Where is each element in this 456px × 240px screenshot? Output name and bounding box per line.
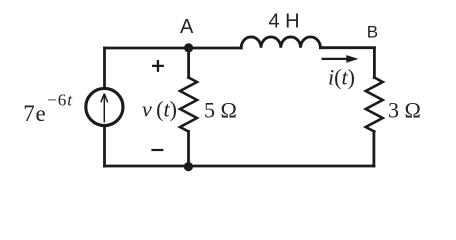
wire left vertical lower xyxy=(103,126,106,167)
svg-text:B: B xyxy=(367,23,378,42)
current source I1 arrow xyxy=(101,94,108,123)
node A junction dot xyxy=(184,43,193,52)
svg-text:5 Ω: 5 Ω xyxy=(204,98,237,123)
svg-text:i(t): i(t) xyxy=(328,64,355,89)
wire node A to resistor R1 xyxy=(187,48,190,78)
svg-text:7e: 7e xyxy=(23,101,46,126)
wire left vertical upper xyxy=(103,48,106,89)
current source I1 circle xyxy=(86,88,123,125)
label - polarity xyxy=(151,149,163,151)
wire right vertical lower xyxy=(372,132,375,167)
label + polarity xyxy=(152,60,164,72)
svg-text:A: A xyxy=(180,16,194,38)
wire right vertical upper xyxy=(373,48,376,78)
label 7e^-6t (source value) xyxy=(23,91,73,126)
wire top right (inductor to corner B) xyxy=(321,46,375,49)
resistor R2 3 ohm xyxy=(366,78,383,132)
resistor R1 5 ohm xyxy=(180,78,197,132)
svg-text:v (t): v (t) xyxy=(142,97,177,122)
svg-text:−6t: −6t xyxy=(47,91,73,110)
wire bottom xyxy=(105,165,374,168)
wire top (left corner to inductor) xyxy=(105,47,242,50)
wire resistor R1 to bottom node xyxy=(187,132,190,167)
svg-text:4 H: 4 H xyxy=(269,10,300,32)
current arrow i(t) xyxy=(322,55,359,63)
inductor L 4 H xyxy=(241,37,320,48)
bottom junction node dot xyxy=(184,162,193,171)
svg-text:3 Ω: 3 Ω xyxy=(388,98,421,123)
